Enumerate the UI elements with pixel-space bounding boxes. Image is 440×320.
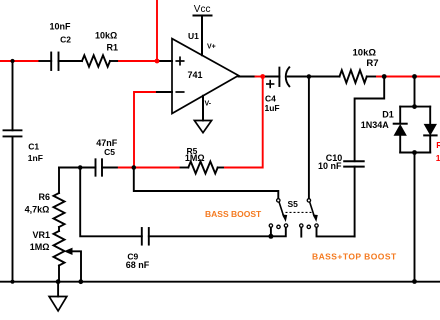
svg-text:D1: D1 — [382, 110, 394, 120]
svg-text:4,7kΩ: 4,7kΩ — [25, 204, 50, 214]
svg-text:U1: U1 — [188, 31, 199, 41]
svg-text:Vcc: Vcc — [194, 4, 211, 15]
svg-text:1nF: 1nF — [28, 153, 43, 163]
svg-text:V+: V+ — [207, 44, 216, 51]
svg-text:R7: R7 — [366, 58, 378, 69]
svg-text:VR1: VR1 — [32, 230, 50, 240]
svg-text:68 nF: 68 nF — [126, 260, 150, 270]
svg-text:10kΩ: 10kΩ — [353, 48, 377, 59]
svg-text:BASS BOOST: BASS BOOST — [205, 209, 262, 219]
svg-text:741: 741 — [188, 70, 203, 80]
svg-text:R8: R8 — [436, 140, 440, 150]
svg-text:C5: C5 — [104, 147, 115, 157]
svg-text:BASS+TOP BOOST: BASS+TOP BOOST — [312, 252, 397, 262]
svg-text:S5: S5 — [288, 199, 299, 209]
svg-text:1MΩ: 1MΩ — [185, 153, 205, 163]
svg-text:10nF: 10nF — [49, 22, 71, 32]
svg-text:1MΩ: 1MΩ — [30, 242, 50, 252]
svg-text:C2: C2 — [60, 35, 71, 45]
svg-text:R1: R1 — [106, 43, 118, 53]
svg-text:1N34A: 1N34A — [361, 120, 390, 130]
svg-text:V-: V- — [205, 101, 212, 108]
svg-text:10kΩ: 10kΩ — [436, 153, 440, 163]
svg-text:C4: C4 — [265, 94, 276, 104]
svg-text:10 nF: 10 nF — [318, 161, 342, 171]
svg-text:R6: R6 — [38, 192, 50, 202]
svg-text:10kΩ: 10kΩ — [95, 31, 117, 41]
svg-text:1uF: 1uF — [265, 103, 280, 113]
svg-text:C1: C1 — [28, 142, 39, 152]
